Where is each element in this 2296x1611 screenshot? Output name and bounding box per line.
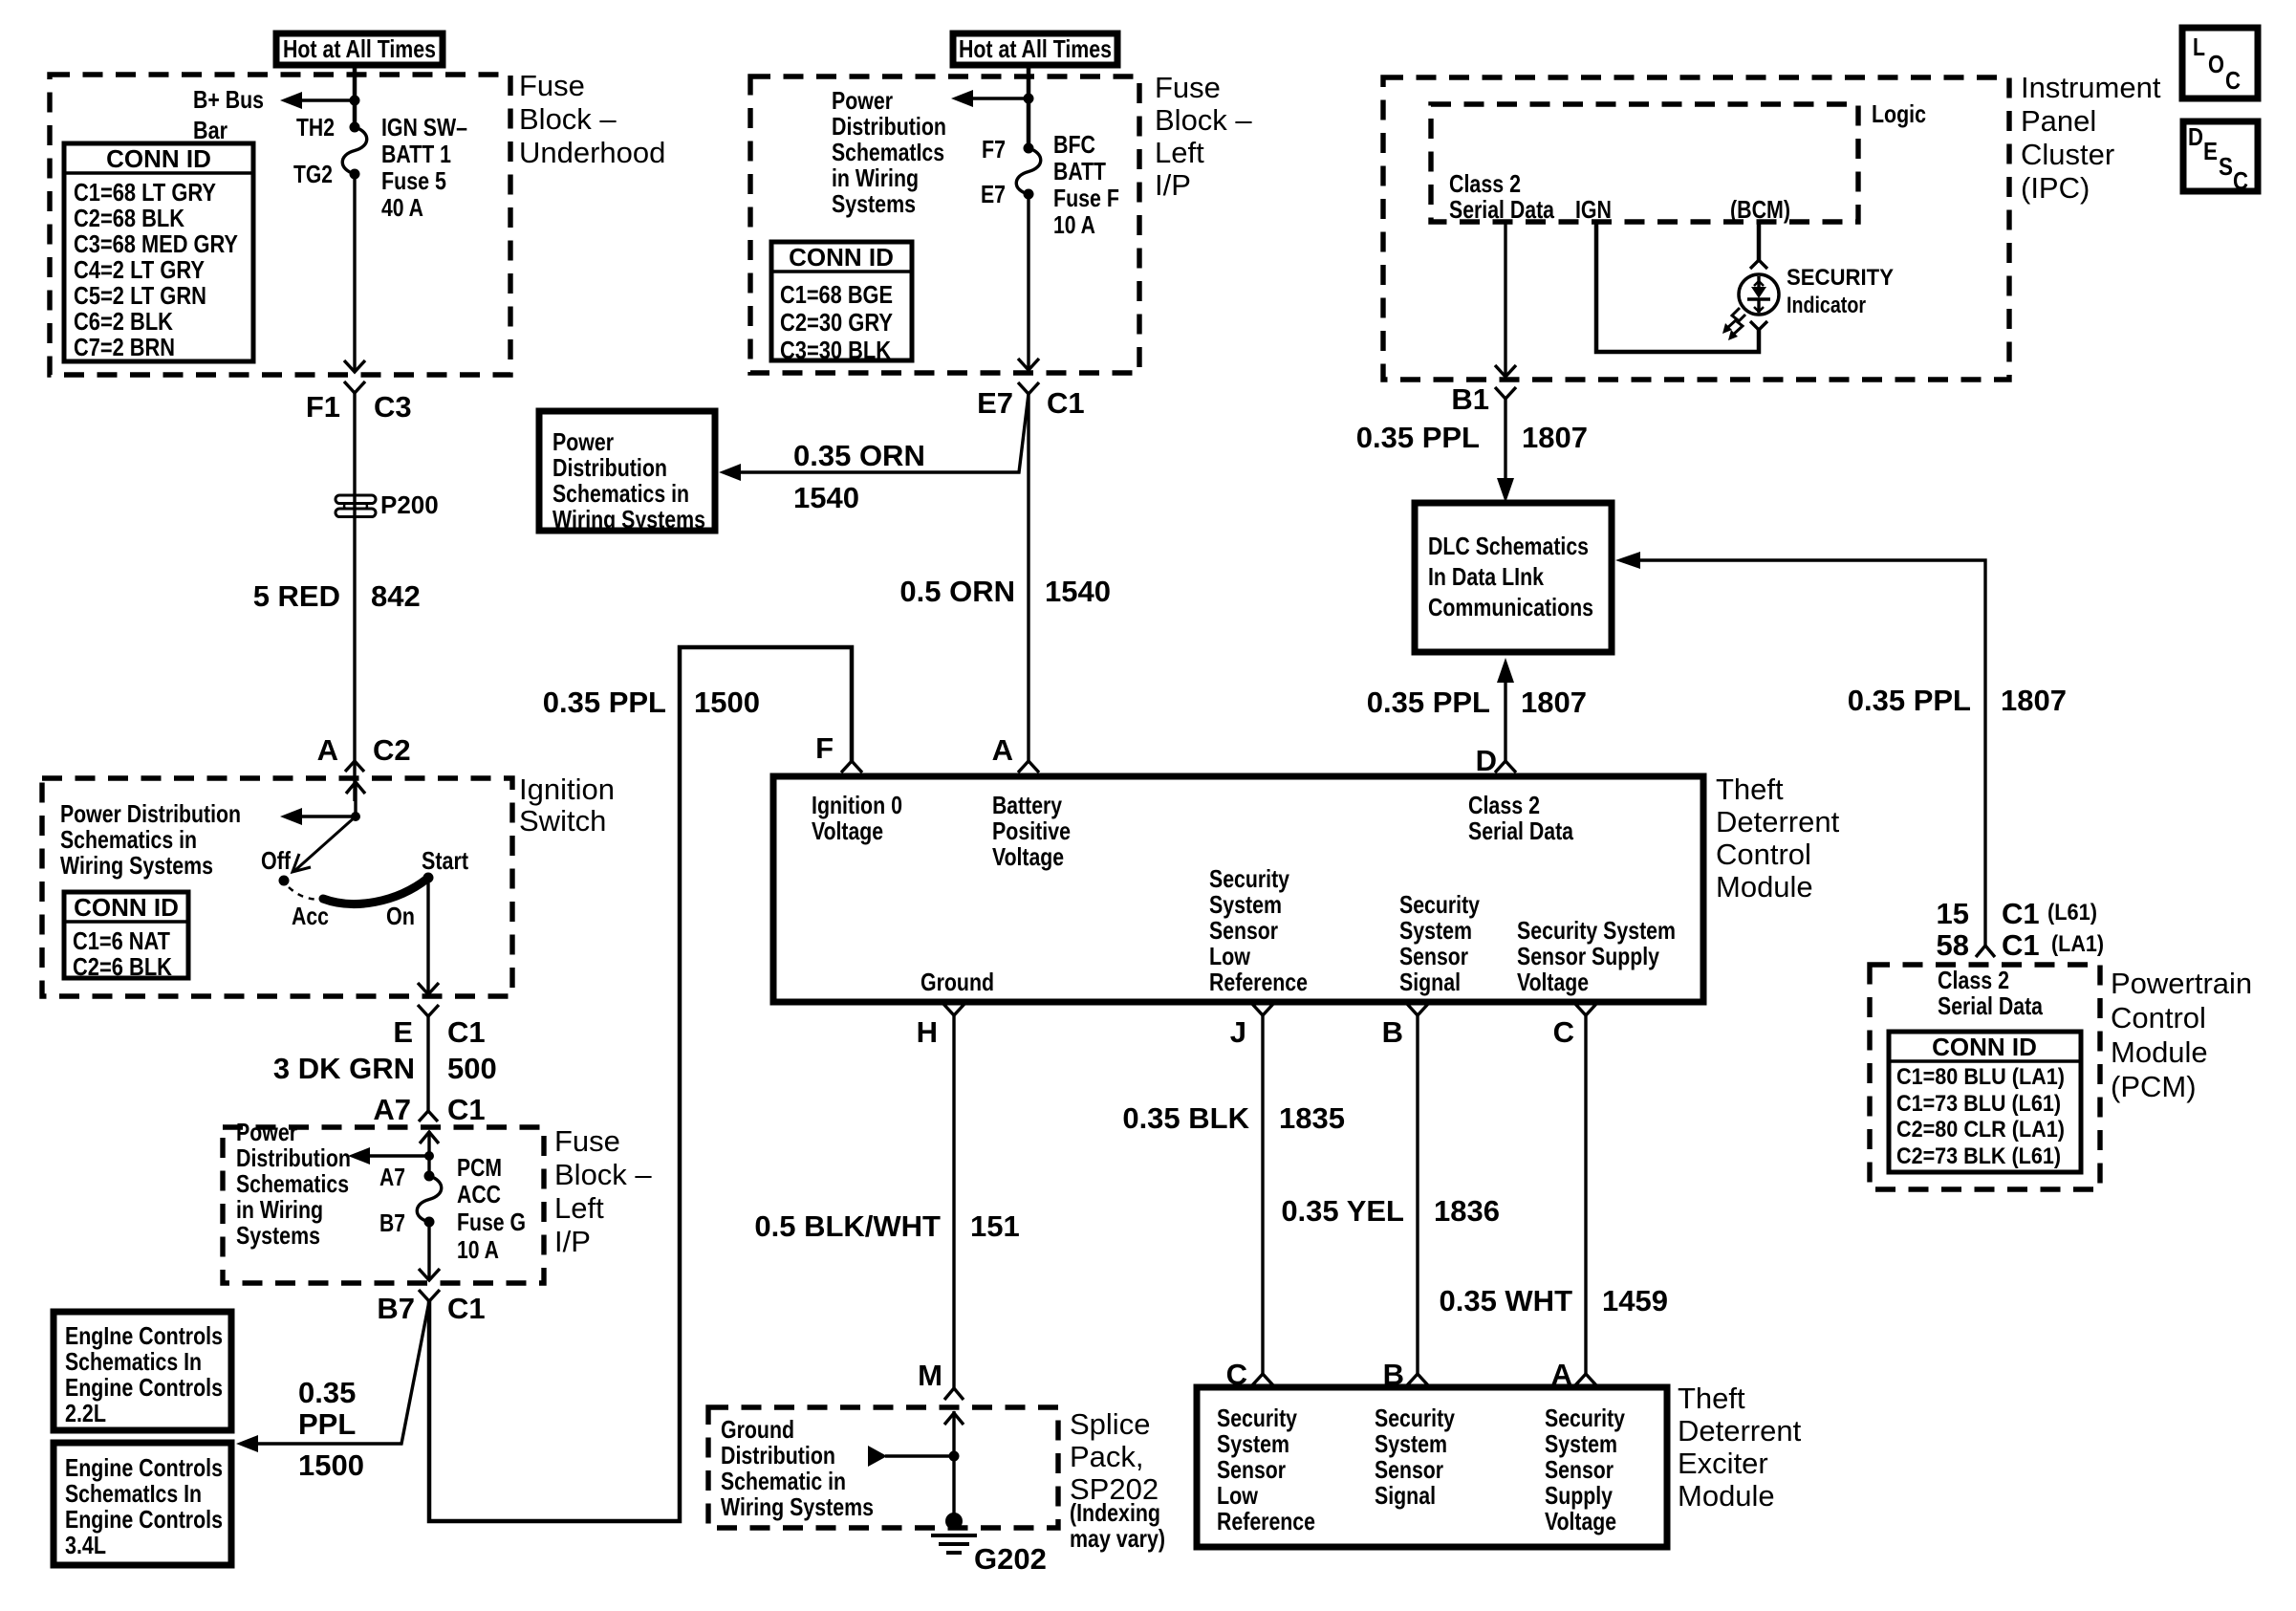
svg-text:Security: Security	[1375, 1404, 1455, 1432]
label Instrument Panel Cluster IPC	[2021, 71, 2161, 205]
svg-text:Engine Controls: Engine Controls	[65, 1505, 223, 1534]
label Fuse Block Left I/P upper	[1155, 71, 1252, 202]
connector C pin	[1553, 1004, 1596, 1049]
svg-text:Wiring Systems: Wiring Systems	[552, 505, 705, 533]
svg-text:Wiring Systems: Wiring Systems	[721, 1492, 874, 1521]
fuse PCM ACC	[417, 1171, 442, 1228]
instrument panel cluster dashed box	[1383, 77, 2009, 380]
engine controls 3.4L box	[54, 1443, 231, 1565]
svg-text:Control: Control	[1716, 838, 1811, 871]
wire ignition entry arrow	[346, 782, 365, 816]
hot-at-all-times box 1	[276, 33, 443, 65]
svg-text:C1: C1	[447, 1292, 486, 1325]
node fuse3 junction	[424, 1151, 434, 1161]
text TDCM pin names	[812, 791, 1676, 996]
svg-text:Instrument: Instrument	[2021, 71, 2161, 104]
svg-text:1807: 1807	[1522, 421, 1588, 454]
svg-text:Power: Power	[552, 427, 614, 456]
svg-text:40 A: 40 A	[381, 193, 423, 222]
svg-text:C4=2 LT GRY: C4=2 LT GRY	[74, 255, 205, 284]
wire IGN down and right	[1596, 222, 1759, 352]
switch Start contact	[423, 873, 434, 883]
svg-text:D: D	[1476, 744, 1497, 777]
conn id table ignition	[64, 892, 188, 981]
wire D pin to DLC	[1504, 681, 1506, 761]
svg-text:E: E	[393, 1015, 413, 1049]
svg-text:Left: Left	[554, 1191, 604, 1225]
connector B1	[1451, 382, 1516, 416]
svg-text:Ignition: Ignition	[519, 773, 615, 806]
svg-text:Splice: Splice	[1070, 1407, 1150, 1441]
wire start down	[426, 878, 429, 994]
LED security indicator	[1739, 274, 1779, 315]
svg-text:H: H	[917, 1015, 938, 1049]
label 0.5 BLK/WHT 151	[754, 1209, 1019, 1243]
wire splice branch arrow	[885, 1454, 954, 1457]
svg-text:Block –: Block –	[554, 1158, 652, 1191]
text power distribution in ignition box	[60, 799, 241, 880]
svg-text:C1=68 BGE: C1=68 BGE	[780, 280, 893, 309]
svg-text:(IPC): (IPC)	[2021, 171, 2090, 205]
svg-text:0.35 ORN: 0.35 ORN	[793, 439, 925, 472]
svg-text:0.35 YEL: 0.35 YEL	[1281, 1194, 1404, 1228]
svg-text:C2=30 GRY: C2=30 GRY	[780, 308, 893, 337]
fuse BFC BATT	[1016, 143, 1041, 200]
text ground distribution in splice box	[721, 1415, 874, 1521]
svg-text:5 RED: 5 RED	[253, 579, 340, 613]
label PCM ACC Fuse G 10 A	[457, 1153, 526, 1264]
svg-text:E7: E7	[981, 180, 1006, 208]
svg-text:1540: 1540	[793, 481, 859, 514]
label Powertrain Control Module PCM	[2111, 967, 2252, 1103]
svg-text:(L61): (L61)	[2047, 900, 2097, 925]
wire M into splice	[944, 1411, 964, 1521]
svg-text:Voltage: Voltage	[812, 816, 883, 845]
svg-text:Indicator: Indicator	[1787, 293, 1866, 318]
connector B pin	[1382, 1004, 1428, 1049]
svg-text:0.35: 0.35	[298, 1376, 356, 1409]
svg-text:Voltage: Voltage	[992, 842, 1064, 871]
text power distribution in fuse2 box	[832, 86, 946, 218]
svg-text:System: System	[1209, 890, 1282, 919]
svg-text:Fuse: Fuse	[554, 1124, 620, 1158]
text power distribution in fuse3 box	[236, 1118, 351, 1250]
svg-text:Sensor: Sensor	[1399, 942, 1468, 970]
svg-text:C3=30 BLK: C3=30 BLK	[780, 336, 891, 364]
svg-text:Ground: Ground	[721, 1415, 794, 1444]
svg-text:C1: C1	[1047, 386, 1085, 420]
svg-text:BATT: BATT	[1053, 157, 1106, 185]
svg-text:Sensor: Sensor	[1217, 1455, 1286, 1484]
connector F pin	[815, 731, 862, 773]
theft deterrent exciter module box	[1197, 1387, 1667, 1547]
svg-text:Deterrent: Deterrent	[1678, 1414, 1802, 1448]
svg-text:PCM: PCM	[457, 1153, 502, 1182]
svg-text:F7: F7	[982, 135, 1006, 163]
connector D pin	[1476, 744, 1516, 777]
svg-text:C1: C1	[447, 1015, 486, 1049]
label 0.5 ORN 1540	[899, 575, 1111, 608]
label 0.35 WHT 1459	[1439, 1284, 1668, 1317]
connector A pin	[992, 733, 1039, 773]
svg-text:Voltage: Voltage	[1517, 968, 1589, 996]
svg-text:D: D	[2188, 122, 2203, 151]
svg-text:in Wiring: in Wiring	[832, 163, 919, 192]
svg-text:Fuse: Fuse	[1155, 71, 1221, 104]
svg-text:Module: Module	[1716, 870, 1813, 903]
svg-text:Fuse F: Fuse F	[1053, 184, 1119, 212]
wire BCM down	[1757, 222, 1762, 260]
svg-text:B: B	[1382, 1015, 1403, 1049]
svg-text:Panel: Panel	[2021, 104, 2096, 138]
wire power dist branch arrow 2	[970, 97, 1029, 99]
powertrain control module dashed box	[1870, 965, 2100, 1189]
wire E7 to A pin	[1027, 394, 1029, 761]
svg-text:DLC Schematics: DLC Schematics	[1428, 532, 1589, 560]
svg-text:10 A: 10 A	[457, 1235, 499, 1264]
svg-text:C1=68 LT GRY: C1=68 LT GRY	[74, 178, 216, 207]
connector PCM pin	[1976, 946, 1995, 957]
svg-text:Power: Power	[236, 1118, 297, 1146]
svg-text:Distribution: Distribution	[552, 453, 667, 482]
svg-text:Battery: Battery	[992, 791, 1062, 819]
connector exciter B	[1383, 1358, 1428, 1391]
label Splice Pack SP202	[1070, 1407, 1165, 1553]
svg-text:BATT 1: BATT 1	[381, 140, 451, 168]
svg-text:System: System	[1545, 1429, 1617, 1458]
label 0.35 PPL 1807 right	[1848, 684, 2067, 717]
svg-text:System: System	[1399, 916, 1472, 945]
svg-text:58: 58	[1937, 928, 1969, 962]
svg-text:Fuse G: Fuse G	[457, 1208, 526, 1236]
wire B+ bus arrow	[299, 98, 355, 101]
label 0.35 YEL 1836	[1281, 1194, 1500, 1228]
label 15 58 C1	[1937, 897, 2104, 962]
theft deterrent control module box	[773, 776, 1703, 1002]
power distribution schematics box mid	[539, 411, 715, 533]
svg-text:Hot at All Times: Hot at All Times	[283, 34, 436, 63]
svg-text:Voltage: Voltage	[1545, 1507, 1616, 1535]
logic dashed box	[1431, 104, 1858, 222]
svg-text:IGN SW–: IGN SW–	[381, 113, 467, 142]
svg-text:Control: Control	[2111, 1001, 2206, 1034]
svg-text:Communications: Communications	[1428, 593, 1593, 621]
svg-text:Class 2: Class 2	[1449, 169, 1521, 198]
splice pack dashed box	[708, 1407, 1058, 1528]
hot-at-all-times box 2	[953, 33, 1117, 65]
svg-text:C3=68 MED GRY: C3=68 MED GRY	[74, 229, 238, 258]
svg-text:Positive: Positive	[992, 816, 1071, 845]
svg-text:842: 842	[371, 579, 421, 613]
text exciter pin names	[1217, 1404, 1625, 1535]
label Fuse Block Left I/P lower	[554, 1124, 652, 1258]
svg-text:C2=73 BLK (L61): C2=73 BLK (L61)	[1896, 1143, 2061, 1169]
svg-text:Supply: Supply	[1545, 1481, 1613, 1510]
dashed arc Off to Acc	[289, 887, 322, 900]
svg-text:In Data LInk: In Data LInk	[1428, 562, 1544, 591]
svg-text:CONN ID: CONN ID	[1932, 1033, 2037, 1061]
svg-text:0.5 BLK/WHT: 0.5 BLK/WHT	[754, 1209, 941, 1243]
svg-text:Class 2: Class 2	[1938, 966, 2009, 994]
label BFC BATT Fuse F 10 A	[1053, 130, 1119, 239]
engine controls 2.2L box	[54, 1312, 231, 1430]
LED lightning arrows	[1722, 308, 1745, 340]
switch wiper arm	[292, 816, 356, 872]
text PCM Class 2 Serial Data	[1938, 966, 2043, 1020]
svg-text:C5=2 LT GRN: C5=2 LT GRN	[74, 281, 206, 310]
svg-text:Low: Low	[1217, 1481, 1259, 1510]
svg-text:Serial Data: Serial Data	[1449, 195, 1554, 224]
svg-text:C2: C2	[373, 733, 411, 767]
svg-text:TH2: TH2	[296, 113, 335, 142]
label 0.35 PPL 1500 branch	[298, 1376, 364, 1482]
svg-text:B7: B7	[379, 1208, 405, 1237]
svg-text:C1=80 BLU (LA1): C1=80 BLU (LA1)	[1896, 1064, 2065, 1090]
wire fuse3 entry arrow	[420, 1131, 439, 1176]
svg-text:CONN ID: CONN ID	[106, 144, 211, 173]
svg-text:Low: Low	[1209, 942, 1251, 970]
wire power dist branch arrow	[299, 815, 356, 817]
svg-text:BFC: BFC	[1053, 130, 1095, 159]
svg-text:Module: Module	[2111, 1035, 2208, 1069]
svg-text:A7: A7	[373, 1093, 411, 1126]
svg-text:0.35 PPL: 0.35 PPL	[1356, 421, 1480, 454]
label 0.35 ORN 1540	[793, 439, 925, 514]
svg-text:Sensor: Sensor	[1209, 916, 1278, 945]
svg-text:Reference: Reference	[1209, 968, 1308, 996]
svg-text:System: System	[1217, 1429, 1289, 1458]
svg-text:Sensor: Sensor	[1375, 1455, 1443, 1484]
svg-text:Class 2: Class 2	[1468, 791, 1540, 819]
svg-text:Distribution: Distribution	[832, 112, 946, 141]
svg-text:(Indexing: (Indexing	[1070, 1498, 1160, 1527]
svg-text:0.35 BLK: 0.35 BLK	[1122, 1101, 1249, 1135]
svg-text:0.35 PPL: 0.35 PPL	[543, 686, 666, 719]
ground G202	[931, 1513, 1047, 1576]
svg-text:Deterrent: Deterrent	[1716, 805, 1840, 838]
svg-text:Fuse 5: Fuse 5	[381, 166, 446, 195]
svg-text:Wiring Systems: Wiring Systems	[60, 851, 213, 880]
label 0.35 BLK 1835	[1122, 1101, 1345, 1135]
svg-text:Reference: Reference	[1217, 1507, 1315, 1535]
connector LED bottom	[1750, 321, 1767, 330]
svg-text:0.35 WHT: 0.35 WHT	[1439, 1284, 1572, 1317]
fuse block left IP upper dashed box	[750, 76, 1139, 373]
ignition switch dashed box	[42, 778, 512, 996]
svg-text:G202: G202	[974, 1542, 1047, 1576]
svg-text:J: J	[1230, 1015, 1246, 1049]
label 0.35 PPL 1500 run	[543, 686, 760, 719]
connector H pin	[917, 1004, 964, 1049]
svg-text:On: On	[386, 902, 415, 930]
wire 0.35 ORN branch	[738, 394, 1029, 472]
svg-text:A: A	[992, 733, 1013, 767]
svg-text:O: O	[2208, 50, 2224, 78]
wire B1 to DLC	[1504, 399, 1506, 483]
svg-text:in Wiring: in Wiring	[236, 1195, 323, 1224]
svg-text:S: S	[2219, 152, 2233, 181]
label 0.35 PPL 1807 D	[1367, 686, 1587, 719]
svg-text:Power Distribution: Power Distribution	[60, 799, 241, 828]
splice P200	[336, 490, 439, 519]
svg-text:C6=2 BLK: C6=2 BLK	[74, 307, 173, 336]
svg-text:Sensor: Sensor	[1545, 1455, 1614, 1484]
svg-text:Security: Security	[1217, 1404, 1297, 1432]
svg-text:1836: 1836	[1434, 1194, 1500, 1228]
svg-text:Systems: Systems	[832, 189, 916, 218]
conn id table PCM	[1889, 1032, 2081, 1172]
svg-text:CONN ID: CONN ID	[74, 893, 179, 922]
connector J pin	[1230, 1004, 1273, 1049]
svg-text:Fuse: Fuse	[519, 69, 585, 102]
svg-text:C1=6 NAT: C1=6 NAT	[73, 926, 170, 955]
switch Off contact	[279, 876, 290, 886]
svg-text:Distribution: Distribution	[236, 1143, 351, 1172]
svg-text:Powertrain: Powertrain	[2111, 967, 2252, 1000]
svg-text:C1: C1	[447, 1093, 486, 1126]
svg-text:TG2: TG2	[293, 160, 333, 188]
wire fuse3 branch arrow	[367, 1154, 429, 1157]
svg-text:2.2L: 2.2L	[65, 1399, 106, 1427]
wire hot2 feed	[1027, 64, 1031, 148]
svg-text:Security System: Security System	[1517, 916, 1676, 945]
svg-text:C2=6 BLK: C2=6 BLK	[73, 952, 172, 981]
svg-text:I/P: I/P	[554, 1225, 591, 1258]
svg-text:SchematIcs: SchematIcs	[832, 138, 944, 166]
svg-text:M: M	[918, 1359, 942, 1392]
svg-text:(BCM): (BCM)	[1730, 195, 1790, 224]
svg-text:Schematic in: Schematic in	[721, 1467, 846, 1495]
wire H to M	[952, 1015, 955, 1388]
wire fuse out down	[353, 174, 356, 372]
svg-text:Block –: Block –	[519, 102, 617, 136]
svg-text:1500: 1500	[694, 686, 760, 719]
svg-text:1540: 1540	[1045, 575, 1111, 608]
svg-text:PPL: PPL	[298, 1407, 356, 1441]
svg-text:Schematics in: Schematics in	[552, 479, 689, 508]
label Fuse Block Underhood	[519, 69, 665, 169]
DESC box	[2183, 121, 2258, 195]
svg-text:Block –: Block –	[1155, 103, 1252, 137]
svg-text:C3: C3	[374, 390, 412, 424]
svg-text:F: F	[815, 731, 834, 765]
svg-text:500: 500	[447, 1052, 497, 1085]
svg-text:1807: 1807	[1521, 686, 1587, 719]
svg-text:E: E	[2203, 137, 2218, 165]
fuse block underhood dashed box	[50, 75, 510, 375]
label 0.35 PPL 1807 upper	[1356, 421, 1588, 454]
svg-text:C1: C1	[2002, 928, 2040, 962]
svg-text:Left: Left	[1155, 136, 1204, 169]
svg-text:Ignition 0: Ignition 0	[812, 791, 902, 819]
conn id table underhood	[64, 143, 253, 361]
svg-text:Systems: Systems	[236, 1221, 320, 1250]
text Class 2 Serial Data IGN BCM	[1449, 169, 1790, 224]
wire J to exciter C	[1261, 1015, 1264, 1374]
fuse block left IP lower dashed box	[223, 1127, 544, 1283]
svg-text:B1: B1	[1451, 382, 1489, 416]
label Theft Deterrent Control Module	[1716, 773, 1840, 903]
svg-text:Theft: Theft	[1716, 773, 1784, 806]
svg-text:Security: Security	[1399, 890, 1480, 919]
label IGN SW-BATT 1 Fuse 5 40 A	[381, 113, 467, 222]
wire to P200	[353, 393, 356, 801]
label 3 DK GRN 500	[273, 1052, 497, 1085]
switch arc Acc-On-Start	[323, 879, 427, 903]
svg-text:1807: 1807	[2001, 684, 2067, 717]
connector F1 C3	[306, 381, 412, 424]
svg-text:Exciter: Exciter	[1678, 1447, 1768, 1480]
svg-text:Underhood: Underhood	[519, 136, 665, 169]
fuse IGN SW-BATT1	[342, 122, 367, 180]
svg-text:Engine Controls: Engine Controls	[65, 1373, 223, 1402]
label Theft Deterrent Exciter Module	[1678, 1382, 1802, 1513]
svg-text:0.5 ORN: 0.5 ORN	[899, 575, 1015, 608]
svg-text:Start: Start	[422, 846, 468, 875]
svg-text:Power: Power	[832, 86, 893, 115]
label SECURITY Indicator	[1787, 265, 1894, 318]
connector E C1	[393, 1005, 485, 1049]
svg-text:Ground: Ground	[921, 968, 994, 996]
svg-text:C2=80 CLR (LA1): C2=80 CLR (LA1)	[1896, 1117, 2065, 1143]
node junction B+	[350, 96, 360, 106]
wire C to exciter A	[1584, 1015, 1587, 1374]
svg-text:EngIne Controls: EngIne Controls	[65, 1321, 223, 1350]
svg-text:Hot at All Times: Hot at All Times	[959, 34, 1112, 63]
wire fuse3 out	[427, 1222, 430, 1280]
svg-text:C: C	[1553, 1015, 1574, 1049]
svg-text:Theft: Theft	[1678, 1382, 1745, 1415]
svg-text:P200: P200	[380, 490, 439, 519]
svg-text:151: 151	[970, 1209, 1020, 1243]
svg-text:may vary): may vary)	[1070, 1524, 1165, 1553]
svg-text:C2=68 BLK: C2=68 BLK	[74, 204, 184, 232]
label 5 RED 842	[253, 579, 421, 613]
svg-text:Cluster: Cluster	[2021, 138, 2114, 171]
svg-text:IGN: IGN	[1575, 195, 1612, 224]
connector M	[918, 1359, 964, 1400]
svg-text:3 DK GRN: 3 DK GRN	[273, 1052, 415, 1085]
svg-text:Signal: Signal	[1399, 968, 1461, 996]
wire DLC right to PCM	[1636, 560, 1985, 946]
node junction hot2	[1024, 94, 1034, 104]
svg-text:I/P: I/P	[1155, 168, 1191, 202]
svg-text:SchematIcs In: SchematIcs In	[65, 1479, 202, 1508]
svg-text:3.4L: 3.4L	[65, 1531, 106, 1559]
label B+ Bus Bar	[193, 85, 264, 144]
LOC box	[2182, 28, 2258, 98]
svg-text:CONN ID: CONN ID	[789, 243, 894, 272]
svg-text:Schematics in: Schematics in	[60, 825, 197, 854]
svg-text:Engine Controls: Engine Controls	[65, 1453, 223, 1482]
svg-text:Distribution: Distribution	[721, 1441, 835, 1469]
svg-text:1835: 1835	[1279, 1101, 1345, 1135]
connector E7 C1	[977, 382, 1085, 420]
svg-text:SECURITY: SECURITY	[1787, 265, 1894, 291]
svg-text:Sensor Supply: Sensor Supply	[1517, 942, 1659, 970]
connector A7 C1	[373, 1093, 485, 1126]
wire B7 branch diagonal ppl	[255, 1301, 429, 1444]
svg-text:Switch: Switch	[519, 804, 606, 838]
svg-text:C7=2 BRN: C7=2 BRN	[74, 333, 175, 361]
svg-text:C: C	[2225, 66, 2241, 95]
wire E to A7	[426, 1016, 429, 1111]
svg-text:Security: Security	[1545, 1404, 1625, 1432]
connector A C2	[317, 733, 411, 772]
svg-text:1459: 1459	[1602, 1284, 1668, 1317]
wire B7 down and across	[429, 647, 852, 1521]
wire hot1 feed	[353, 65, 357, 127]
